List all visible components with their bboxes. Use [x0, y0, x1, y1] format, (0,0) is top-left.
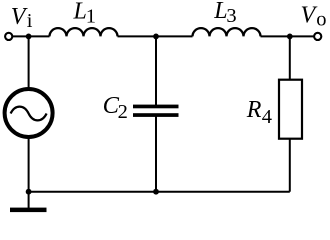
- capacitor C2 bottom plate: [133, 113, 179, 117]
- wire: C2 bottom lead: [155, 117, 157, 192]
- inductor L3: [193, 28, 261, 36]
- svg-text:4: 4: [262, 106, 272, 128]
- wire top rail: L1 to L3: [118, 35, 193, 37]
- wire: bottom rail: [29, 191, 290, 193]
- svg-text:3: 3: [226, 5, 236, 27]
- svg-text:R: R: [246, 97, 262, 123]
- ground: [10, 208, 47, 213]
- output terminal (open circle): [314, 33, 321, 40]
- node dot: C2 bottom junction: [153, 189, 159, 195]
- svg-text:V: V: [11, 4, 28, 30]
- resistor R4 box: [279, 80, 302, 139]
- node dot: C2 top junction: [153, 34, 159, 40]
- svg-text:1: 1: [86, 5, 96, 27]
- AC source sine wave: [11, 107, 47, 121]
- wire: junction down to ground symbol: [28, 192, 30, 208]
- svg-text:V: V: [301, 2, 318, 28]
- inductor L1: [50, 28, 118, 36]
- input terminal (open circle): [5, 33, 12, 40]
- svg-text:L: L: [213, 0, 227, 24]
- svg-text:L: L: [73, 0, 87, 24]
- svg-text:i: i: [27, 10, 33, 32]
- wire: node Vi down to source: [28, 36, 30, 89]
- node dot: Vo junction: [287, 34, 293, 40]
- node dot: ground junction: [26, 189, 32, 195]
- wire top rail: L3 to Vo terminal: [261, 35, 314, 37]
- svg-text:2: 2: [118, 101, 128, 123]
- wire top rail: Vi terminal to L1: [12, 35, 50, 37]
- capacitor C2 top plate: [133, 105, 179, 109]
- wire: R4 bottom lead to rail: [289, 139, 291, 192]
- svg-text:o: o: [316, 9, 326, 31]
- AC source V1 circle: [5, 89, 53, 137]
- wire: node Vo down to R4: [289, 36, 291, 80]
- wire: C2 top lead: [155, 36, 157, 105]
- node dot: Vi junction: [26, 34, 32, 40]
- wire: source bottom to ground rail: [28, 137, 30, 192]
